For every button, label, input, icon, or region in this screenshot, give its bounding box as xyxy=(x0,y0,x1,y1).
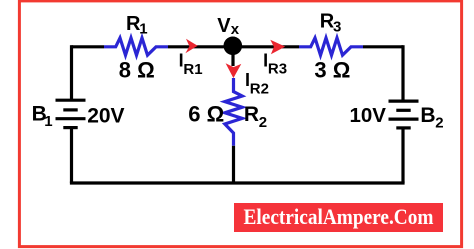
svg-text:V: V xyxy=(217,15,231,37)
svg-text:R: R xyxy=(244,103,259,126)
svg-text:10V: 10V xyxy=(350,104,387,127)
svg-text:x: x xyxy=(231,21,240,38)
svg-text:1: 1 xyxy=(44,113,52,130)
wire right upper segment xyxy=(401,45,404,101)
wire top-right segment xyxy=(363,45,403,48)
current arrow IR2 xyxy=(226,63,242,78)
svg-text:R1: R1 xyxy=(183,61,202,78)
svg-text:6 Ω: 6 Ω xyxy=(188,102,224,127)
wire top-left segment xyxy=(72,45,105,48)
battery B1 xyxy=(56,100,86,127)
svg-text:2: 2 xyxy=(435,114,443,131)
svg-text:R3: R3 xyxy=(268,61,287,78)
svg-text:2: 2 xyxy=(259,114,267,131)
wire left upper segment xyxy=(70,45,73,100)
wire node to R2 xyxy=(231,46,234,66)
svg-text:3 Ω: 3 Ω xyxy=(314,58,350,83)
wire bottom segment xyxy=(72,183,404,185)
node Vx xyxy=(224,37,243,56)
resistor R1 xyxy=(104,38,168,55)
resistor R3 xyxy=(299,38,363,55)
resistor R2 xyxy=(225,78,242,146)
current arrow IR3 xyxy=(270,40,285,54)
wire left lower segment xyxy=(70,128,73,183)
svg-text:R2: R2 xyxy=(250,80,269,97)
svg-text:20V: 20V xyxy=(87,104,124,127)
svg-text:3: 3 xyxy=(333,18,341,35)
wire R2 to bottom xyxy=(232,146,235,183)
wire right lower segment xyxy=(401,128,404,183)
svg-text:B: B xyxy=(420,104,435,127)
svg-text:1: 1 xyxy=(139,21,147,38)
wire top-middle segment xyxy=(168,45,299,48)
svg-text:ElectricalAmpere.Com: ElectricalAmpere.Com xyxy=(244,204,434,229)
svg-text:8 Ω: 8 Ω xyxy=(119,58,155,83)
battery B2 xyxy=(389,101,419,128)
current arrow IR1 xyxy=(185,39,197,54)
